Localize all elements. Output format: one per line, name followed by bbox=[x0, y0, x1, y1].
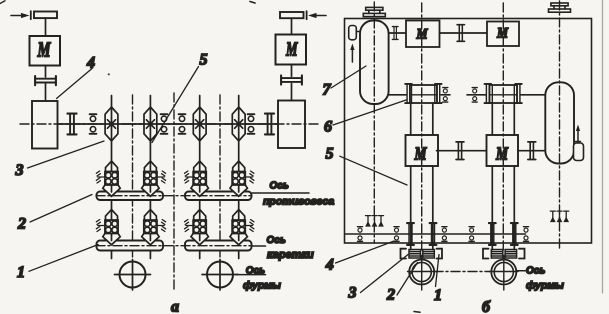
anchor marks c2 L2 bbox=[157, 220, 166, 232]
bearing pair b2 bbox=[161, 114, 168, 134]
crosshair lance right bbox=[202, 260, 238, 291]
brake right b bbox=[549, 3, 571, 12]
clamp bracket lance2 bbox=[483, 249, 525, 259]
motion arrow into right brake bbox=[313, 15, 326, 17]
coupling lance2 right bbox=[511, 223, 518, 245]
coupling drum-M1 bbox=[392, 27, 398, 40]
brake stop tick right bbox=[306, 11, 308, 19]
bearing lance1 right bbox=[442, 227, 447, 242]
screw column 4 bbox=[238, 96, 240, 259]
leader 4b bbox=[336, 241, 395, 263]
svg-text:М: М bbox=[37, 38, 52, 62]
wire: brake to motor bbox=[45, 18, 47, 36]
screw column 1 bbox=[111, 96, 113, 259]
drive axis (dash-dot) of horizontal shaft bbox=[20, 123, 318, 125]
svg-text:4: 4 bbox=[325, 257, 334, 274]
coupling M3-M4 bbox=[456, 142, 464, 160]
carriage beam left pair bbox=[97, 241, 164, 251]
coupling M1-M2 bbox=[457, 25, 464, 42]
scan speck top middle bbox=[250, 2, 255, 4]
coupling lance2 left bbox=[489, 223, 496, 245]
shaft stub right of unit 6 bbox=[441, 94, 450, 96]
leader 6 bbox=[333, 100, 406, 125]
flange R of unit 6r bbox=[515, 84, 522, 103]
ball nut c2 level1 bbox=[142, 161, 159, 196]
svg-text:Ось: Ось bbox=[526, 266, 545, 277]
screw column 2 bbox=[149, 96, 151, 259]
screw b left-2 bbox=[432, 103, 434, 250]
svg-text:7: 7 bbox=[323, 82, 332, 99]
wire: motor 2 to coupling bbox=[291, 65, 293, 77]
counterweight axis dash-dot bbox=[96, 195, 252, 197]
anchor marks c1 L1 bbox=[96, 171, 105, 183]
screw b right-1 bbox=[491, 103, 493, 250]
svg-text:2: 2 bbox=[386, 287, 395, 304]
brake drum T2 bbox=[280, 12, 304, 18]
leader 4 bbox=[57, 69, 93, 99]
wire: main horizontal drive shaft bbox=[58, 123, 279, 125]
shaft stub left of unit 6r bbox=[467, 94, 486, 96]
leader 2 bbox=[30, 195, 92, 223]
bearing pair b1 bbox=[90, 114, 97, 134]
wire: brake to motor 2 bbox=[291, 18, 293, 34]
gearbox 4 (right) bbox=[278, 101, 305, 149]
axis drum right (dash-dot) bbox=[559, 1, 561, 250]
arrow up (right weight) bbox=[577, 129, 579, 143]
bearing lance2 left bbox=[469, 227, 474, 242]
lance axis right pair (dash-dot) bbox=[219, 95, 221, 258]
nut block lance1 bbox=[409, 250, 434, 259]
bearing pair b4 bbox=[248, 114, 255, 134]
screw coupling capsule 4 bbox=[232, 107, 245, 141]
nut block lance2 bbox=[491, 250, 516, 259]
svg-text:М: М bbox=[495, 144, 508, 164]
wire to lance axis label b bbox=[516, 270, 528, 272]
anchor marks c1 L2 bbox=[96, 220, 105, 232]
svg-text:5: 5 bbox=[200, 52, 208, 69]
anchor marks c4 L1 bbox=[245, 171, 254, 183]
motion arrow into left brake bbox=[11, 15, 24, 17]
svg-text:2: 2 bbox=[17, 216, 26, 233]
lance carriage shaft b bbox=[346, 233, 526, 235]
ball nut c2 level2 bbox=[142, 210, 159, 245]
bearing lance1 left bbox=[394, 227, 399, 242]
carriage axis dash-dot bbox=[96, 245, 252, 247]
bearing pair unit 6 bbox=[443, 88, 448, 103]
motor M (right unit of a) bbox=[276, 35, 307, 65]
crosshair b left bbox=[408, 256, 437, 291]
coupling on shaft (left) bbox=[67, 114, 76, 135]
drum right bbox=[545, 82, 574, 163]
svg-text:фурмы: фурмы bbox=[243, 280, 281, 292]
pulley cluster left bbox=[366, 216, 371, 226]
motor M4 bbox=[487, 135, 519, 166]
svg-text:Ось: Ось bbox=[267, 235, 286, 246]
lance circle b left bbox=[409, 260, 434, 285]
scan artifact: page edge right bbox=[602, 0, 604, 293]
wire: coupling to gearbox 2 bbox=[291, 84, 293, 101]
leader 7 bbox=[331, 66, 366, 88]
clamp bracket lance1 bbox=[401, 249, 443, 259]
anchor marks c2 L1 bbox=[157, 171, 166, 183]
pulley cluster right bbox=[550, 211, 555, 221]
lance axis connecting dash-dot bbox=[434, 271, 490, 273]
bearing pair b3 bbox=[179, 114, 186, 134]
screw coupling capsule 1 bbox=[105, 107, 118, 141]
svg-text:противовеса: противовеса bbox=[263, 196, 334, 208]
flange R of unit 6 bbox=[435, 84, 442, 103]
screw coupling capsule 2 bbox=[144, 107, 157, 141]
crosshair b right bbox=[490, 256, 519, 291]
drum 7 (left) bbox=[360, 21, 389, 105]
svg-text:5: 5 bbox=[326, 146, 334, 163]
counterweight beam left pair bbox=[97, 192, 164, 201]
coupling on shaft (right) bbox=[265, 114, 274, 135]
gearbox 4 (left) bbox=[32, 101, 58, 149]
ball nut c3 level2 bbox=[191, 210, 208, 245]
motor M (left unit of a) bbox=[30, 36, 61, 66]
wire: weight to drum bbox=[356, 31, 360, 33]
brake stop tick left bbox=[30, 11, 32, 19]
svg-text:М: М bbox=[285, 39, 298, 61]
flange L of unit 6r bbox=[484, 84, 491, 103]
svg-text:1: 1 bbox=[17, 264, 25, 281]
motor M1 bbox=[406, 21, 440, 48]
leader 5b bbox=[340, 156, 407, 185]
wire: M1 to M2 bbox=[440, 32, 487, 34]
wire: motor to coupling bbox=[45, 66, 47, 78]
counterweight small left bbox=[349, 26, 357, 40]
worm gear unit 6 (left) bbox=[410, 85, 437, 103]
counterweight small right bbox=[574, 143, 584, 161]
worm gear unit 6 (right) bbox=[490, 85, 518, 103]
crosshair lance left bbox=[115, 260, 151, 291]
svg-text:М: М bbox=[496, 26, 508, 42]
counterweight beam right pair bbox=[185, 192, 252, 201]
arrow up (left weight) bbox=[351, 49, 353, 62]
leader 2b bbox=[397, 263, 418, 296]
leader 1b bbox=[436, 255, 440, 287]
screw column 3 bbox=[199, 96, 201, 259]
leader 3b bbox=[361, 255, 409, 293]
svg-text:М: М bbox=[414, 144, 427, 164]
axis lance left b (dash-dot) bbox=[421, 3, 423, 253]
ball nut c4 level2 bbox=[230, 210, 247, 245]
screw b right-2 bbox=[513, 103, 515, 250]
ball nut c1 level2 bbox=[103, 210, 120, 245]
frame of hoist b bbox=[345, 19, 592, 244]
axis lance right b (dash-dot) bbox=[502, 3, 504, 253]
coupling M4-drum bbox=[528, 142, 536, 160]
axis drum left (dash-dot) bbox=[373, 2, 375, 243]
central axis of machine (dash-dot) bbox=[173, 93, 175, 290]
wire: coupling to gearbox bbox=[45, 84, 47, 101]
leader 5 bbox=[152, 67, 199, 143]
flange L of unit 6 bbox=[405, 84, 412, 103]
wire: M4 to drum right bbox=[518, 150, 545, 152]
brake drum T1 bbox=[34, 12, 57, 19]
leader 1 bbox=[29, 245, 98, 272]
svg-text:3: 3 bbox=[348, 285, 357, 302]
svg-text:фурмы: фурмы bbox=[526, 280, 564, 292]
ball nut c3 level1 bbox=[191, 161, 208, 196]
motor M2 bbox=[487, 22, 519, 47]
lance circle left bbox=[120, 262, 146, 288]
motor M3 bbox=[406, 135, 439, 166]
svg-text:1: 1 bbox=[434, 287, 442, 304]
scan speck near 4 bbox=[108, 73, 110, 75]
coupling lance1 left bbox=[407, 223, 414, 245]
brake left b bbox=[363, 7, 385, 16]
wire: M3 to M4 bbox=[437, 150, 487, 152]
carriage beam right pair bbox=[185, 241, 252, 251]
wire: drum to worm unit 6 bbox=[389, 94, 406, 96]
svg-text:6: 6 bbox=[324, 119, 332, 136]
screw b left-1 bbox=[410, 103, 412, 250]
scan speck bottom right bbox=[414, 311, 420, 314]
coupling lance1 right bbox=[429, 223, 436, 245]
lance axis left pair (dash-dot) bbox=[132, 95, 134, 258]
svg-text:каретки: каретки bbox=[267, 249, 314, 261]
svg-text:б: б bbox=[482, 299, 491, 314]
svg-text:Ось: Ось bbox=[270, 181, 289, 192]
anchor marks c3 L2 bbox=[185, 220, 194, 232]
bearing pair unit 6r bbox=[472, 88, 477, 103]
scan speck top-left corner bbox=[0, 1, 5, 4]
svg-text:3: 3 bbox=[15, 162, 24, 179]
coupling (motor-gearbox) bbox=[35, 76, 56, 85]
coupling (motor2-gearbox2) bbox=[281, 75, 302, 84]
ball nut c1 level1 bbox=[103, 161, 120, 196]
lance circle b right bbox=[491, 260, 516, 285]
screw coupling capsule 3 bbox=[193, 107, 206, 141]
bearing end left bbox=[357, 227, 362, 242]
leader 3 bbox=[28, 141, 105, 168]
svg-text:а: а bbox=[171, 299, 179, 314]
bearing lance2 right bbox=[523, 227, 528, 242]
anchor marks c4 L2 bbox=[245, 220, 254, 232]
ball nut c4 level1 bbox=[230, 161, 247, 196]
wire: unit 6r to drum right bbox=[521, 94, 549, 96]
lance circle right bbox=[207, 262, 233, 288]
anchor marks c3 L1 bbox=[185, 171, 194, 183]
wire: drum to motor M1 bbox=[389, 32, 406, 34]
